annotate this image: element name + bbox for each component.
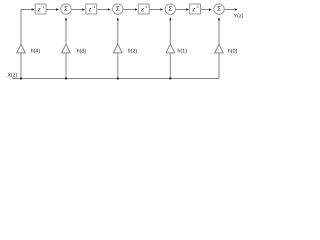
wire tap up into adder A1 bbox=[65, 20, 67, 44]
multiplier triangle h(2) bbox=[114, 44, 123, 53]
multiplier triangle h(1) bbox=[166, 44, 175, 53]
wire from input rail up to multiplier h(3) bbox=[65, 53, 67, 79]
junction node on rail at tap 4 bbox=[169, 77, 171, 79]
adder A4 (sigma) bbox=[214, 4, 224, 14]
wire from input rail up to multiplier h(2) bbox=[117, 53, 119, 79]
multiplier triangle h(3) bbox=[62, 44, 71, 53]
delay block Z2 (z^-1) bbox=[86, 4, 97, 14]
junction node on rail at tap 1 bbox=[20, 77, 22, 79]
wire output to Y(z) bbox=[224, 9, 234, 11]
wire delay Z1 to adder A1 bbox=[46, 9, 56, 11]
input rail wire from X(z) bbox=[12, 78, 219, 80]
wire adder A2 to delay Z3 bbox=[123, 9, 135, 11]
label h(1) bbox=[178, 49, 180, 53]
label h(4) bbox=[31, 49, 33, 53]
adder A3 (sigma) bbox=[165, 4, 175, 14]
wire delay Z4 to adder A4 bbox=[201, 9, 210, 11]
wire from input rail up to multiplier h(0) bbox=[218, 53, 220, 79]
adder A2 (sigma) bbox=[113, 4, 123, 14]
label h(0) bbox=[228, 49, 230, 53]
wire delay Z3 to adder A3 bbox=[149, 9, 160, 11]
wire tap up into adder A4 bbox=[218, 20, 220, 44]
junction node on rail at tap 2 bbox=[65, 77, 67, 79]
multiplier triangle h(0) bbox=[215, 44, 224, 53]
label Y(z) bbox=[234, 14, 237, 18]
label h(2) bbox=[128, 49, 130, 53]
delay block Z1 (z^-1) bbox=[35, 4, 46, 14]
wire adder A3 to delay Z4 bbox=[176, 9, 187, 11]
wire from input rail up to multiplier h(1) bbox=[169, 53, 171, 79]
junction node on rail at tap 3 bbox=[117, 77, 119, 79]
multiplier triangle h(4) bbox=[17, 44, 26, 53]
label X(z) bbox=[8, 73, 11, 77]
wire adder A1 to delay Z2 bbox=[71, 9, 83, 11]
delay block Z3 (z^-1) bbox=[138, 4, 149, 14]
wire tap up into adder A3 bbox=[169, 20, 171, 44]
wire from h(4) output corner into delay block Z1 bbox=[21, 10, 32, 45]
wire delay Z2 to adder A2 bbox=[97, 9, 108, 11]
adder A1 (sigma) bbox=[61, 4, 71, 14]
label h(3) bbox=[77, 49, 79, 53]
wire from input rail up to multiplier h(4) bbox=[20, 53, 22, 79]
delay block Z4 (z^-1) bbox=[190, 4, 201, 14]
wire tap up into adder A2 bbox=[117, 20, 119, 44]
